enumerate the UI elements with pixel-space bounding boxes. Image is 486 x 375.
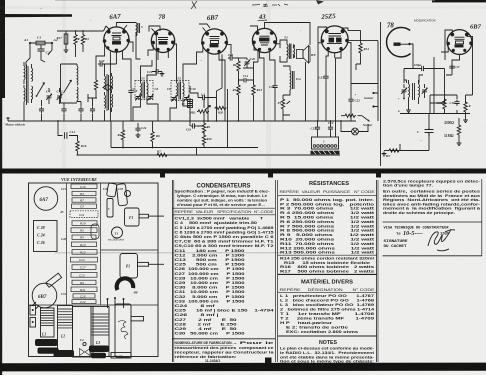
- tube 6A7 location: [34, 187, 58, 211]
- small oval component: [91, 224, 99, 239]
- coil L1: [35, 308, 59, 354]
- terminal dot mod: [403, 98, 405, 100]
- tube 6B7 location: [32, 283, 57, 308]
- registration ticks below divider: [160, 174, 165, 178]
- capacitor 100uuF: [420, 66, 426, 71]
- filter F1 with shaft: [125, 208, 140, 226]
- resistor R4: [121, 129, 124, 141]
- capacitor C5b: [78, 107, 83, 113]
- capacitor C21: [323, 74, 328, 80]
- resistor vertical right low: [457, 124, 460, 136]
- capacitor C4b: [61, 107, 66, 113]
- capacitor C22 (electrolytic): [348, 97, 353, 103]
- wires trimmers to bus: [42, 88, 60, 121]
- table borders: [172, 180, 378, 362]
- resistor R14: [359, 42, 362, 54]
- switch S2: [64, 80, 72, 93]
- scan noise speckles: [40, 8, 422, 151]
- transformer T1 location: [112, 227, 123, 238]
- L3 winding a: [105, 76, 106, 90]
- ground bus: [8, 120, 356, 122]
- resistor R20a horizontal: [215, 106, 227, 109]
- bottom edge black bar: [0, 363, 486, 372]
- trimmer C20: [244, 60, 250, 66]
- potentiometer P1: [281, 98, 284, 110]
- top edge marks: [432, 0, 486, 2]
- resistor R2a: [94, 79, 97, 91]
- 6A7 pin leads: [96, 26, 133, 121]
- coil L2 winding: [76, 66, 79, 85]
- loudspeaker HP: [297, 46, 311, 64]
- wave-change switch S1: [37, 83, 45, 97]
- capacitor C18a: [201, 95, 207, 100]
- tube 6B7 (modification): [446, 30, 472, 55]
- resistor 1M: [443, 98, 446, 110]
- coil L2 block: [61, 64, 78, 121]
- ground under 1M column: [463, 118, 468, 123]
- potentiometer P2 arrow: [205, 106, 211, 111]
- tube 25Z5: [321, 26, 349, 53]
- terminal pins: [108, 299, 124, 309]
- output transformer T3: [280, 36, 295, 63]
- fold line across middle of lower half: [55, 251, 280, 254]
- tube 78 (modification, partial arc): [387, 27, 411, 56]
- resistor R3a: [81, 34, 84, 46]
- 43 pin leads: [250, 23, 310, 122]
- capacitor C14c bypass loop: [58, 121, 78, 140]
- 25Z5 pin leads: [306, 27, 379, 125]
- capacitor C13: [228, 55, 234, 60]
- coil L1 primary: [24, 66, 25, 80]
- resistor R8: [237, 60, 240, 72]
- capacitor C2: [38, 45, 45, 57]
- resistor R22 horizontal: [197, 110, 209, 113]
- transformer T1: [131, 77, 159, 101]
- capacitor C19 with ground: [152, 69, 162, 74]
- coil L1 secondary column: [32, 68, 33, 82]
- left edge black bar: [0, 0, 5, 98]
- small can: [107, 199, 113, 218]
- L3 winding b: [105, 95, 106, 109]
- condenser block C28 C24 C26: [34, 221, 58, 252]
- resistor R9: [202, 122, 205, 134]
- component strip rectangles: [70, 184, 98, 304]
- tube 43: [252, 28, 276, 52]
- trimmer CV2: [57, 94, 63, 100]
- resistor R7 on AVC bus: [152, 154, 155, 156]
- ground mod left: [406, 108, 411, 113]
- scan noise overlay: [62, 0, 66, 168]
- oscillator coil L3: [103, 73, 112, 121]
- mains resistor R15 + switch Inter: [341, 115, 344, 117]
- capacitor C17: [449, 64, 454, 70]
- ground under R17: [64, 48, 69, 53]
- 6B7 pin leads: [197, 24, 232, 121]
- L3 winding d: [112, 94, 113, 108]
- alignment tool through tube: [46, 273, 62, 287]
- strip labels: [79, 185, 86, 304]
- cord shaft: [131, 317, 144, 321]
- resistor R16: [76, 140, 79, 152]
- horizontal thick divider between schematic and tables: [0, 169, 486, 174]
- capacitor C3: [39, 107, 44, 113]
- junction dots on buses: [122, 147, 124, 149]
- L3 winding c: [112, 76, 113, 90]
- resistor R6: [151, 131, 154, 143]
- tuning gang housing: [73, 307, 94, 358]
- trimmer CV1: [46, 94, 52, 100]
- antenna terminal A1: [30, 42, 52, 44]
- node A1: [29, 42, 31, 44]
- resistor 3300: [464, 101, 467, 113]
- MF transformer (mod): [401, 80, 427, 108]
- handwritten annotation top: [191, 1, 288, 9]
- verticals joining AVC and lower bus: [111, 121, 197, 155]
- resistor R19: [74, 34, 77, 46]
- side terminal blocks: [30, 306, 36, 316]
- electrolytic cans top right (tilted): [107, 183, 117, 197]
- capacitor C16: [454, 100, 459, 106]
- top edge black bar: [0, 14, 72, 17]
- bottom resistor RT with ground: [388, 149, 400, 152]
- small circle top right: [125, 191, 131, 197]
- wires mod section: [390, 30, 473, 151]
- coil L3: [89, 307, 109, 359]
- speaker magnet (horseshoe): [117, 278, 133, 290]
- resistor R12: [237, 84, 240, 96]
- node on grid line: [75, 30, 77, 32]
- field coil Lm (excitation): [283, 66, 302, 95]
- capacitor C24 with ground: [137, 123, 139, 126]
- boxed resistor R21: [188, 100, 193, 108]
- hf choke above between 6A7 and 78: [116, 23, 140, 60]
- tube 6A7: [103, 25, 130, 52]
- capacitor C14b: [328, 125, 333, 131]
- node A2: [51, 42, 53, 44]
- lower bus: [77, 154, 341, 156]
- pilot lamp: [341, 121, 368, 135]
- potentiometer P1 with shaft: [120, 254, 138, 279]
- grid network R17/R19/R3 left of 6A7: [57, 31, 104, 57]
- vertical divider before modification section: [380, 22, 382, 166]
- chassis outline: [29, 183, 159, 357]
- capacitor C9 below 6A7: [128, 89, 133, 95]
- capacitor C16a: [191, 123, 197, 128]
- mains cord compartment: [111, 304, 131, 358]
- ballast resistor unit 1: [311, 137, 340, 154]
- capacitor C23: [315, 125, 320, 131]
- fuse C1: [36, 41, 45, 45]
- big capacitor electrolytic mod: [425, 128, 434, 136]
- signature flourish: [428, 229, 455, 251]
- tube 78: [151, 29, 174, 53]
- padding caps C5/C6: [88, 74, 97, 121]
- resistor R13: [252, 84, 255, 96]
- capacitor C14a bridging: [239, 78, 254, 83]
- C10 cap near L3 top: [98, 61, 104, 66]
- resistor R20: [202, 134, 205, 146]
- AVC line: [111, 147, 258, 149]
- registration tick above bottom bar: [265, 358, 272, 364]
- tube 6B7: [201, 28, 228, 55]
- wires tube 78 region: [133, 26, 197, 121]
- transformer T2: [167, 77, 196, 102]
- wire antenna to coils: [26, 43, 52, 66]
- capacitor C15: [274, 82, 276, 85]
- coil L2: [54, 306, 75, 358]
